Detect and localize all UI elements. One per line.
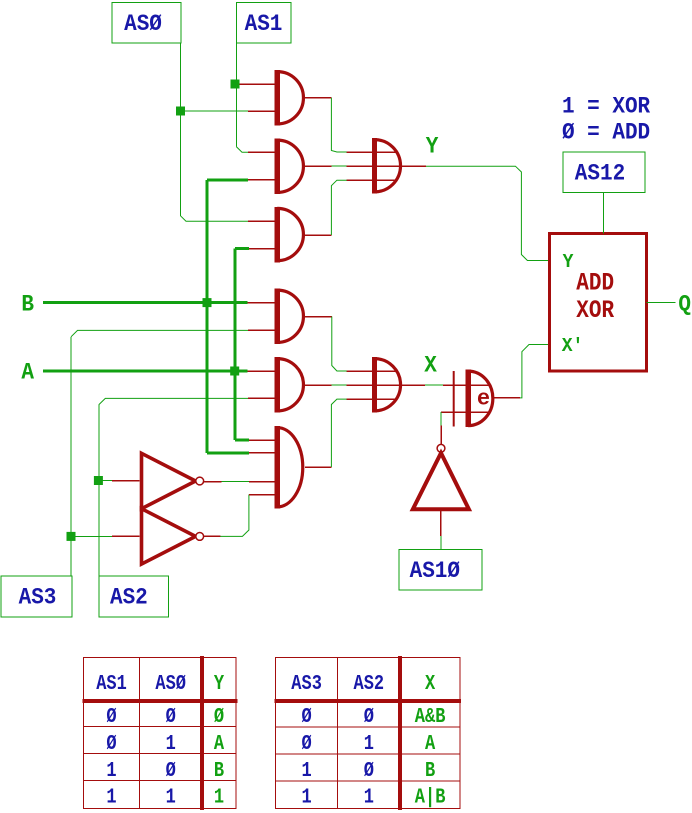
wire A to gate G6 input 1 — [235, 439, 249, 442]
inverter U2 bubble — [196, 533, 204, 541]
AND gate G3 — [275, 207, 304, 262]
wire gate G5 output through OR gate G8 — [303, 384, 425, 386]
enable gate U3 input line 2 — [441, 411, 490, 413]
OR gate G7 output Y — [372, 138, 401, 194]
truth table 2 row value Ø Ø A&amp;B — [301, 704, 445, 728]
svg-text:A: A — [21, 359, 34, 386]
AND gate G6 (4-input) — [275, 426, 303, 509]
junction A vertical — [230, 367, 239, 376]
input box AS10 — [399, 550, 482, 591]
pin stub gate G4 input 2 — [248, 329, 276, 331]
wire gate G6 output to OR gate G8 input 3 — [305, 399, 347, 467]
wire enable gate U3 output to block U4 X' input — [494, 345, 550, 398]
pin stub gate G6 input 2 — [249, 452, 276, 454]
truth table 2 grid — [275, 656, 462, 810]
enable gate U3 label e — [477, 386, 490, 411]
pin stub gate G2 input 2 — [248, 179, 276, 181]
wire inverter U5 output to enable gate U3 — [440, 412, 442, 444]
wire AS3 vertical from box — [71, 330, 248, 576]
pin stub inverter U1 input — [112, 480, 140, 482]
truth table 1 row value 1 1 1 — [106, 785, 224, 809]
pin stub gate G1 input 2 — [248, 110, 276, 112]
svg-text:1: 1 — [364, 785, 374, 809]
pin stub gate G3 input 1 — [248, 220, 276, 222]
wire A horizontal — [43, 370, 248, 373]
svg-text:1: 1 — [166, 785, 176, 809]
input box AS1 — [236, 3, 290, 44]
svg-text:AS12: AS12 — [575, 159, 625, 186]
AND gate G4 — [275, 289, 304, 345]
label Y — [426, 132, 439, 159]
AND gate G1 — [275, 70, 304, 126]
svg-text:Ø: Ø — [106, 731, 117, 755]
svg-text:Ø: Ø — [106, 704, 117, 728]
svg-text:1: 1 — [214, 785, 224, 809]
OR gate G7 input line 1 — [347, 151, 397, 153]
svg-text:Y: Y — [214, 671, 225, 695]
svg-text:Ø: Ø — [166, 704, 177, 728]
wire AS12 to block U4 — [603, 193, 605, 234]
pin stub gate G5 input 1 — [248, 370, 277, 372]
svg-text:X': X' — [562, 334, 584, 357]
wire B horizontal — [43, 301, 248, 304]
svg-text:A: A — [214, 731, 225, 755]
svg-text:Ø: Ø — [301, 704, 312, 728]
svg-text:1: 1 — [364, 731, 374, 755]
wire B vertical riser — [206, 180, 209, 453]
svg-text:AS2: AS2 — [110, 584, 148, 611]
truth table 1 row value Ø 1 A — [106, 731, 224, 755]
wire B to gate G6 input 2 — [207, 451, 249, 454]
inverter U1 triangle — [142, 453, 196, 508]
block U4 ADD/XOR body — [549, 234, 646, 372]
inverter U5 triangle — [413, 453, 469, 509]
AND gate G5 — [275, 357, 304, 413]
truth table 2 row value 1 1 A|B — [301, 785, 445, 809]
wire B to gate G2 input 2 — [207, 178, 248, 181]
wire AS3 branch to inverter U2 — [71, 535, 112, 537]
truth table 2 header AS2 — [354, 671, 385, 695]
svg-text:ASØ: ASØ — [155, 671, 186, 695]
input box AS12 — [563, 152, 645, 193]
wire AS0 vertical from box to bend — [181, 43, 249, 221]
pin stub gate G5 input 2 — [248, 397, 276, 399]
svg-text:AS1Ø: AS1Ø — [410, 557, 460, 584]
svg-text:AS1: AS1 — [245, 10, 283, 37]
svg-text:AS3: AS3 — [291, 671, 322, 695]
svg-text:A|B: A|B — [415, 785, 446, 809]
AND gate G2 — [275, 139, 304, 195]
wire inverter U2 output to gate G6 input 4 — [204, 495, 276, 537]
junction AS1 to gate G1 — [231, 80, 240, 89]
svg-text:X: X — [425, 671, 436, 695]
svg-text:XOR: XOR — [576, 296, 614, 324]
wire AS0 branch to gate G1 input 2 — [181, 110, 249, 112]
wire AS2 branch to inverter U1 — [98, 480, 112, 482]
truth table 2 header AS3 — [291, 671, 322, 695]
truth table 1 header AS0 — [155, 671, 186, 695]
svg-text:B: B — [214, 758, 225, 782]
junction B vertical — [203, 298, 212, 307]
pin line enable gate U3 input 1 — [443, 384, 490, 386]
pin stub gate G2 input 1 — [248, 151, 276, 153]
enable gate U3 body — [453, 370, 493, 428]
pin stub inverter U2 input — [112, 535, 140, 537]
truth table 2 row value 1 Ø B — [301, 758, 435, 782]
svg-text:Y: Y — [426, 132, 439, 159]
pin stub gate G4 input 1 — [248, 302, 277, 304]
OR gate G8 input line 1 — [347, 370, 397, 372]
OR gate G7 input line 3 — [347, 179, 397, 181]
junction AS0 to gate G1 — [176, 107, 185, 116]
svg-text:Q: Q — [678, 290, 691, 317]
input box AS3 — [1, 576, 72, 617]
wire net Y to block U4 — [426, 166, 550, 260]
label B — [21, 290, 34, 317]
wire gate G1 output to OR gate G7 input 1 — [303, 98, 347, 152]
truth table 1 grid — [83, 656, 238, 810]
svg-text:Ø: Ø — [364, 758, 375, 782]
OR gate G8 output X — [372, 357, 401, 413]
svg-text:1: 1 — [106, 758, 116, 782]
svg-text:Ø: Ø — [364, 704, 375, 728]
svg-text:B: B — [425, 758, 436, 782]
svg-text:ASØ: ASØ — [124, 10, 162, 37]
pin stub gate G6 input 1 — [249, 439, 276, 441]
svg-text:B: B — [21, 290, 34, 317]
svg-text:1: 1 — [106, 785, 116, 809]
input box AS0 — [112, 3, 181, 44]
input box AS2 — [99, 576, 168, 617]
label X — [424, 351, 437, 378]
inverter U5 bubble — [437, 444, 445, 452]
svg-text:1: 1 — [301, 758, 311, 782]
truth table 1 row value Ø Ø Ø — [106, 704, 224, 728]
block U4 label ADD — [576, 269, 614, 297]
wire inverter U1 output to gate G6 input 3 — [204, 481, 276, 483]
svg-text:e: e — [477, 386, 490, 411]
label A — [21, 359, 34, 386]
truth table 1 header Y — [214, 671, 225, 695]
svg-text:Y: Y — [563, 250, 574, 273]
truth table 1 row value 1 Ø B — [106, 758, 224, 782]
annotation 0 = ADD — [562, 119, 650, 146]
block U4 pin label X' — [562, 334, 584, 357]
svg-text:Ø: Ø — [301, 731, 312, 755]
wire block U4 output Q — [646, 302, 675, 304]
OR gate G8 input line 3 — [347, 398, 397, 400]
svg-text:Ø: Ø — [166, 758, 177, 782]
pin stub gate G3 input 2 — [249, 248, 276, 250]
svg-text:1: 1 — [166, 731, 176, 755]
svg-text:X: X — [424, 351, 437, 378]
annotation 1 = XOR — [562, 92, 651, 119]
truth table 2 header X — [425, 671, 436, 695]
svg-text:AS1: AS1 — [96, 671, 127, 695]
block U4 label XOR — [576, 296, 614, 324]
svg-text:ADD: ADD — [576, 269, 614, 297]
junction AS2 to inverter U1 — [94, 476, 103, 485]
pin stub gate G1 input 1 — [240, 83, 277, 85]
block U4 pin label Y — [563, 250, 574, 273]
svg-text:1 = XOR: 1 = XOR — [562, 92, 651, 119]
svg-text:AS2: AS2 — [354, 671, 385, 695]
svg-text:A&B: A&B — [415, 704, 446, 728]
wire AS1 vertical from box to bend — [236, 43, 248, 152]
wire gate G4 output to OR gate G8 input 1 — [303, 317, 347, 372]
svg-text:Ø = ADD: Ø = ADD — [562, 119, 650, 146]
inverter U1 bubble — [196, 477, 204, 485]
wire A vertical riser — [234, 249, 237, 440]
wire gate G3 output to OR gate G7 input 3 — [303, 180, 347, 235]
svg-text:AS3: AS3 — [19, 584, 57, 611]
wire net X segment — [425, 384, 443, 386]
svg-text:A: A — [425, 731, 436, 755]
label Q — [678, 290, 691, 317]
wire gate G2 output through OR gate G7 — [303, 165, 426, 167]
svg-text:1: 1 — [301, 785, 311, 809]
wire AS2 vertical from box — [99, 398, 248, 576]
inverter U2 triangle — [142, 509, 196, 564]
svg-text:Ø: Ø — [214, 704, 225, 728]
truth table 1 header AS1 — [96, 671, 127, 695]
junction AS3 to inverter U2 — [67, 532, 76, 541]
wire A to gate G3 input 2 — [235, 247, 249, 250]
truth table 2 row value Ø 1 A — [301, 731, 435, 755]
wire inverter U5 input from box AS10 — [440, 511, 442, 550]
